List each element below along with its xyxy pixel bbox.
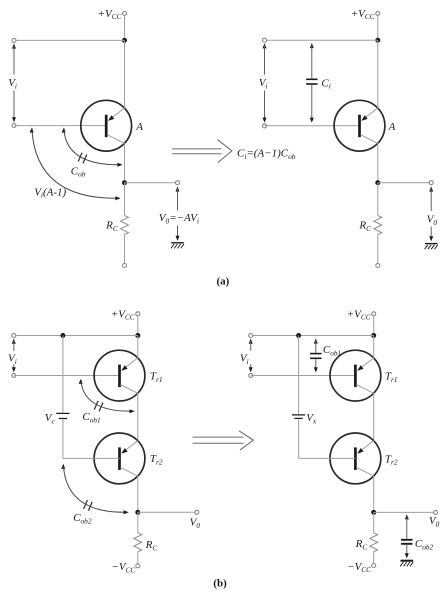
arrow arc Cob2 feedback (b-left): [61, 464, 129, 515]
arrow arc Cob1 feedback (b-left): [79, 379, 135, 414]
node output terminal (b-left): [195, 510, 199, 514]
source Vi arrow (a-right): [263, 43, 267, 123]
node +VCC terminal (a-left): [123, 11, 127, 15]
wire output horizontal (a-right): [378, 182, 431, 184]
wire base (a-left): [14, 125, 106, 127]
capacitor Cob slash marks (a-left): [78, 153, 82, 162]
transistor A (a-right): [334, 100, 385, 151]
node +VCC terminal (a-right): [376, 11, 380, 15]
wire emitter down (a-left): [124, 143, 126, 183]
wire Vx branch vertical (b-right): [298, 336, 300, 414]
wire emitter down (a-right): [377, 143, 379, 183]
node output terminal (a-right): [429, 181, 433, 185]
wire +VCC to top junction (b-right): [373, 316, 375, 336]
wire resistor to -VCC terminal (b-left): [137, 552, 139, 564]
wire top rail horizontal (a-right): [265, 39, 378, 41]
node output junction (a-right): [375, 180, 380, 185]
wire between transistors (b-right): [373, 393, 375, 441]
node +VCC terminal (b-right): [372, 312, 376, 316]
capacitor Cob1 slash marks (b-left): [94, 401, 98, 410]
ground (a-right): [425, 244, 438, 250]
wire top rail horizontal (b-left): [14, 335, 138, 337]
capacitor Cob2 slash marks (b-left): [84, 500, 88, 509]
wire collector Tr1 to rail (b-left): [137, 336, 139, 359]
svg-text:A: A: [135, 121, 143, 133]
implication double arrow (a): [172, 140, 232, 163]
wire collector to rail (a-right): [377, 40, 379, 108]
wire +VCC to top junction (a-left): [124, 16, 126, 41]
node top junction (a-left): [122, 38, 127, 43]
node input bottom terminal (b-left): [12, 373, 16, 377]
wire to resistor (a-right): [377, 183, 379, 216]
node Vc tap junction (b-left): [60, 333, 65, 338]
resistor RC (b-right): [370, 533, 378, 552]
capacitor Ci branch (a-right): [306, 43, 317, 123]
node input top terminal (a-right): [263, 38, 267, 42]
node input bottom terminal (a-right): [263, 124, 267, 128]
wire base (a-right): [265, 125, 360, 127]
node output terminal (b-right): [434, 510, 438, 514]
wire to resistor (b-right): [373, 512, 375, 532]
svg-text:A: A: [388, 121, 396, 133]
resistor RC (a-left): [121, 216, 129, 235]
ground (b-right): [400, 561, 413, 567]
node output junction (b-right): [371, 510, 376, 515]
source V0 arrow (a-right): [429, 186, 433, 241]
svg-text:V0=−AVi: V0=−AVi: [159, 212, 199, 225]
transistor Tr1 (b-left): [94, 350, 145, 401]
wire Vc branch vertical (b-left): [62, 336, 64, 413]
wire Vx branch to Tr2 base (b-right): [299, 420, 356, 459]
wire emitter Tr2 down (b-right): [373, 476, 375, 513]
node bottom terminal (a-right): [376, 264, 380, 268]
capacitor Cob2 branch with ground (b-right): [401, 514, 412, 558]
transistor A (a-left): [81, 100, 132, 151]
source Vi arrow (a-left): [12, 43, 16, 122]
node bottom terminal (a-left): [123, 264, 127, 268]
node output junction (b-left): [135, 510, 140, 515]
wire resistor to bottom terminal (a-right): [377, 235, 379, 264]
node input top terminal (b-left): [12, 334, 16, 338]
node top junction (b-left): [135, 333, 140, 338]
wire output horizontal (b-right): [374, 511, 436, 513]
ground (a-left): [171, 243, 184, 249]
wire output horizontal (a-left): [125, 182, 178, 184]
transistor Tr2 (b-left): [94, 433, 145, 484]
wire base Tr1 (b-right): [251, 375, 356, 377]
capacitor Cob1 branch (b-right): [310, 338, 321, 372]
node input bottom terminal (b-right): [249, 373, 253, 377]
source Vc battery symbol (b-left): [56, 412, 69, 414]
wire to resistor (b-left): [137, 512, 139, 533]
source Vx battery symbol (b-right): [292, 414, 305, 416]
svg-text:(a): (a): [217, 276, 230, 288]
wire top rail horizontal (b-right): [251, 335, 374, 337]
node -VCC terminal (b-left): [136, 564, 140, 568]
resistor RC (b-left): [134, 533, 142, 552]
wire output horizontal (b-left): [138, 511, 197, 513]
node top junction (b-right): [371, 333, 376, 338]
arrow arc Cob feedback (a-left): [62, 127, 123, 166]
resistor RC (a-right): [374, 216, 382, 235]
wire +VCC to top junction (b-left): [137, 316, 139, 336]
wire collector to rail (a-left): [124, 40, 126, 108]
wire base Tr1 (b-left): [14, 375, 120, 377]
node +VCC terminal (b-left): [136, 312, 140, 316]
node top junction (a-right): [375, 38, 380, 43]
source V0 arrow (a-left): [176, 186, 180, 241]
wire resistor to -VCC terminal (b-right): [373, 552, 375, 564]
wire between transistors (b-left): [137, 393, 139, 441]
node Vx tap junction (b-right): [296, 333, 301, 338]
node input top terminal (b-right): [249, 334, 253, 338]
implication double arrow (b): [193, 431, 254, 450]
wire top rail horizontal (a-left): [14, 39, 125, 41]
node output terminal (a-left): [176, 181, 180, 185]
wire emitter Tr2 down (b-left): [137, 476, 139, 512]
svg-text:(b): (b): [213, 578, 227, 590]
node input bottom terminal (a-left): [12, 124, 16, 128]
node output junction (a-left): [122, 180, 127, 185]
node input top terminal (a-left): [12, 38, 16, 42]
wire collector Tr1 to rail (b-right): [373, 336, 375, 359]
svg-text:Vi(A-1): Vi(A-1): [34, 186, 66, 199]
source Vi arrow (b-left): [12, 339, 16, 373]
svg-text:Ci=(A−1)Cob: Ci=(A−1)Cob: [237, 147, 296, 160]
wire resistor to bottom terminal (a-left): [124, 235, 126, 264]
source Vi arrow (b-right): [249, 339, 253, 373]
arrow arc Vi(A-1) feedback (a-left): [30, 127, 121, 200]
node -VCC terminal (b-right): [372, 564, 376, 568]
transistor Tr1 (b-right): [330, 350, 381, 401]
transistor Tr2 (b-right): [330, 433, 381, 484]
wire to resistor (a-left): [124, 183, 126, 216]
wire +VCC to top junction (a-right): [377, 16, 379, 41]
wire Vc branch to Tr2 base (b-left): [63, 420, 120, 459]
